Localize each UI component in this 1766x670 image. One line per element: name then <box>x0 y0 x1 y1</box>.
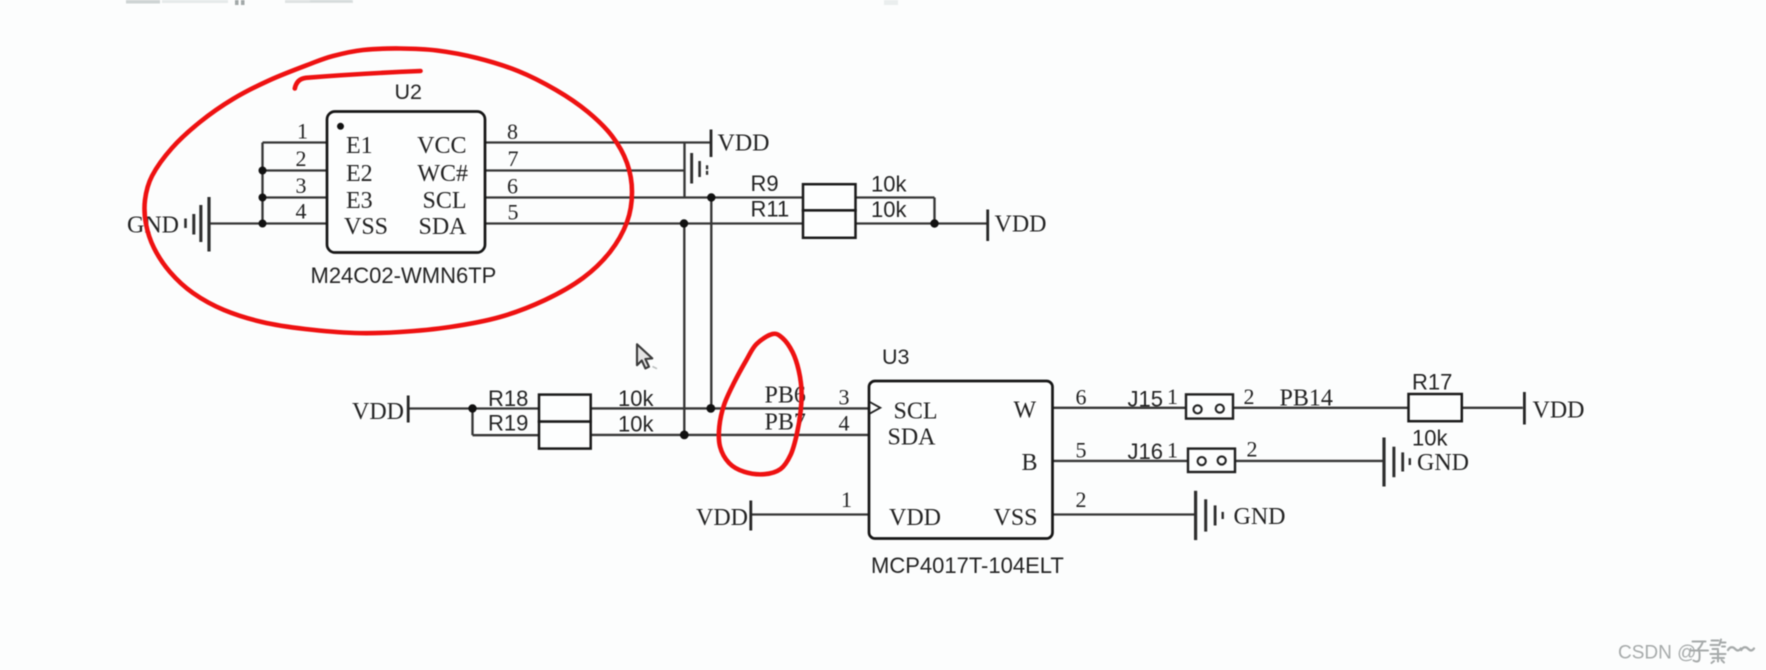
svg-text:SDA: SDA <box>888 425 937 451</box>
svg-text:MCP4017T-104ELT: MCP4017T-104ELT <box>871 553 1064 578</box>
svg-text:CSDN @: CSDN @ <box>1618 643 1696 664</box>
svg-text:4: 4 <box>296 199 307 224</box>
svg-text:B: B <box>1022 450 1038 476</box>
svg-text:10k: 10k <box>871 172 907 197</box>
svg-text:E3: E3 <box>346 188 373 214</box>
svg-text:6: 6 <box>1076 385 1087 410</box>
svg-text:SCL: SCL <box>894 399 938 425</box>
svg-text:E2: E2 <box>346 161 373 187</box>
svg-text:VDD: VDD <box>1533 398 1585 424</box>
svg-text:10k: 10k <box>618 386 654 411</box>
svg-text:WC#: WC# <box>417 161 468 187</box>
svg-text:U3: U3 <box>882 345 910 369</box>
svg-text:E1: E1 <box>346 133 373 159</box>
svg-text:5: 5 <box>508 200 519 225</box>
svg-text:VCC: VCC <box>417 133 466 159</box>
svg-text:R11: R11 <box>751 197 790 222</box>
svg-text:3: 3 <box>296 173 307 198</box>
svg-text:R17: R17 <box>1412 370 1452 395</box>
svg-text:GND: GND <box>1234 504 1286 530</box>
svg-text:10k: 10k <box>871 197 907 222</box>
svg-text:1: 1 <box>1167 438 1178 463</box>
svg-text:4: 4 <box>839 411 850 436</box>
svg-text:1: 1 <box>841 487 852 512</box>
svg-text:M24C02-WMN6TP: M24C02-WMN6TP <box>311 263 497 288</box>
svg-text:U2: U2 <box>395 80 422 104</box>
svg-text:PB14: PB14 <box>1280 386 1333 412</box>
svg-text:6: 6 <box>507 174 518 199</box>
svg-text:7: 7 <box>508 146 519 171</box>
svg-text:5: 5 <box>1076 438 1087 463</box>
svg-text:R18: R18 <box>488 386 528 411</box>
svg-text:R9: R9 <box>751 171 779 196</box>
svg-text:2: 2 <box>1076 487 1087 512</box>
svg-text:2: 2 <box>1244 384 1255 409</box>
svg-text:VSS: VSS <box>344 214 388 240</box>
svg-text:J15: J15 <box>1128 387 1163 412</box>
svg-text:VSS: VSS <box>994 505 1038 531</box>
svg-text:GND: GND <box>127 213 179 239</box>
svg-text:8: 8 <box>507 119 518 144</box>
svg-text:SCL: SCL <box>422 188 466 214</box>
svg-text:10k: 10k <box>1412 426 1448 451</box>
svg-text:1: 1 <box>297 119 308 144</box>
svg-text:SDA: SDA <box>418 214 467 240</box>
svg-text:10k: 10k <box>618 412 654 437</box>
svg-text:VDD: VDD <box>889 505 941 531</box>
svg-text:VDD: VDD <box>352 399 404 425</box>
svg-text:VDD: VDD <box>995 212 1047 238</box>
svg-text:VDD: VDD <box>696 505 748 531</box>
svg-text:1: 1 <box>1167 384 1178 409</box>
svg-text:VDD: VDD <box>718 131 770 157</box>
svg-text:2: 2 <box>1247 437 1258 462</box>
svg-text:3: 3 <box>839 385 850 410</box>
svg-text:R19: R19 <box>488 411 528 436</box>
svg-text:W: W <box>1014 398 1037 424</box>
svg-text:J16: J16 <box>1128 439 1163 464</box>
svg-text:GND: GND <box>1417 450 1469 476</box>
svg-text:2: 2 <box>296 146 307 171</box>
